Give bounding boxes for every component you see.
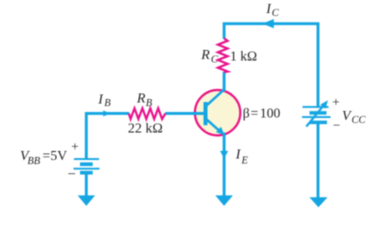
svg-text:β: β <box>243 105 250 120</box>
svg-text:I: I <box>97 92 104 107</box>
svg-text:1 kΩ: 1 kΩ <box>230 49 257 64</box>
svg-text:=: = <box>251 105 259 120</box>
svg-text:100: 100 <box>260 105 281 120</box>
svg-text:BB: BB <box>27 156 40 167</box>
svg-text:−: − <box>68 167 76 183</box>
svg-text:+: + <box>71 139 78 154</box>
svg-text:=: = <box>43 148 51 163</box>
svg-text:E: E <box>241 155 249 166</box>
svg-text:CC: CC <box>352 115 367 126</box>
svg-text:B: B <box>146 98 153 109</box>
svg-text:22 kΩ: 22 kΩ <box>128 122 163 137</box>
svg-text:B: B <box>104 98 111 109</box>
svg-text:R: R <box>200 48 210 63</box>
svg-text:C: C <box>211 55 219 66</box>
svg-text:+: + <box>332 94 339 109</box>
svg-text:R: R <box>136 91 146 106</box>
svg-text:−: − <box>333 118 340 133</box>
svg-text:V: V <box>342 109 352 124</box>
svg-text:C: C <box>272 8 280 19</box>
svg-text:5V: 5V <box>50 148 67 163</box>
